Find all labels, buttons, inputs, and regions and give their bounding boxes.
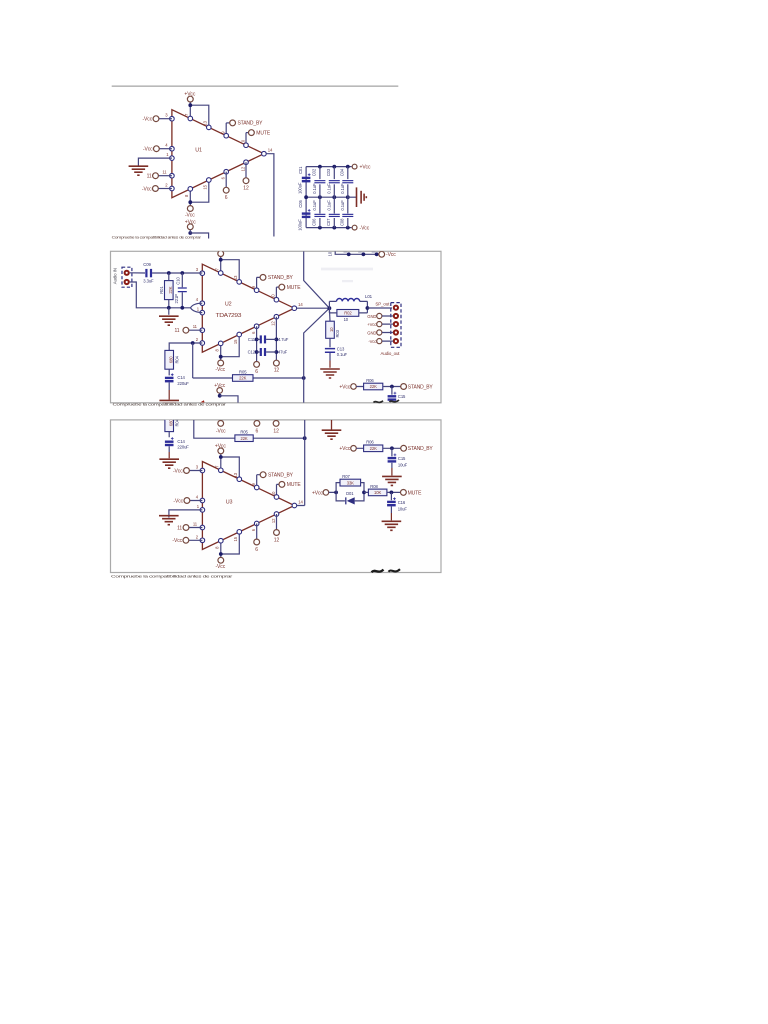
svg-text:10: 10 bbox=[344, 317, 349, 322]
svg-text:0.1uF: 0.1uF bbox=[312, 183, 317, 194]
svg-text:22K: 22K bbox=[370, 446, 377, 451]
svg-text:R06: R06 bbox=[366, 378, 374, 383]
svg-text:221P: 221P bbox=[174, 294, 179, 304]
svg-text:0.1uF: 0.1uF bbox=[312, 200, 317, 211]
svg-text:220uF: 220uF bbox=[177, 381, 189, 386]
svg-text:R03: R03 bbox=[335, 329, 340, 337]
svg-text:6: 6 bbox=[255, 369, 258, 375]
svg-text:C14: C14 bbox=[177, 375, 185, 380]
svg-text:-Vcc: -Vcc bbox=[216, 429, 226, 435]
svg-text:220uF: 220uF bbox=[177, 445, 189, 450]
svg-text:12: 12 bbox=[274, 367, 280, 373]
svg-text:C02: C02 bbox=[312, 168, 317, 176]
svg-text:0.1uF: 0.1uF bbox=[340, 200, 345, 211]
svg-text:C13: C13 bbox=[337, 346, 345, 351]
svg-text:Compruebe la compatibilidad an: Compruebe la compatibilidad antes de com… bbox=[111, 575, 234, 579]
svg-text:SP_out: SP_out bbox=[375, 302, 390, 307]
svg-text:C08: C08 bbox=[340, 218, 345, 226]
svg-text:100uF: 100uF bbox=[297, 219, 302, 231]
svg-text:R05: R05 bbox=[240, 430, 248, 435]
svg-text:R04: R04 bbox=[175, 355, 180, 363]
svg-text:10uF: 10uF bbox=[398, 463, 408, 468]
svg-text:+Vcc: +Vcc bbox=[339, 384, 350, 390]
svg-text:TDA7293: TDA7293 bbox=[216, 313, 242, 319]
svg-text:-Vcc: -Vcc bbox=[386, 252, 396, 258]
svg-text:+Vcc: +Vcc bbox=[339, 446, 350, 452]
svg-text:STAND_BY: STAND_BY bbox=[408, 446, 434, 452]
svg-text:12: 12 bbox=[273, 429, 279, 435]
svg-text:C01: C01 bbox=[298, 166, 303, 174]
svg-text:D01: D01 bbox=[346, 491, 354, 496]
svg-text:R06: R06 bbox=[366, 440, 374, 445]
svg-text:C10: C10 bbox=[176, 277, 181, 285]
svg-text:47uF: 47uF bbox=[278, 349, 288, 354]
svg-text:4.7uF: 4.7uF bbox=[278, 337, 289, 342]
svg-text:C04: C04 bbox=[340, 168, 345, 176]
svg-text:R07: R07 bbox=[342, 474, 350, 479]
svg-text:C09: C09 bbox=[143, 262, 151, 267]
svg-text:33K: 33K bbox=[347, 480, 354, 485]
svg-text:+Vcc: +Vcc bbox=[312, 490, 323, 496]
svg-text:6: 6 bbox=[256, 429, 259, 435]
svg-text:+Vcc: +Vcc bbox=[360, 164, 371, 170]
svg-text:0.1uF: 0.1uF bbox=[340, 183, 345, 194]
svg-text:10: 10 bbox=[327, 251, 332, 256]
svg-text:R01: R01 bbox=[159, 286, 164, 294]
svg-text:C15: C15 bbox=[398, 394, 406, 399]
svg-text:22K: 22K bbox=[168, 286, 173, 293]
svg-text:U3: U3 bbox=[226, 499, 233, 505]
svg-text:Audio_out: Audio_out bbox=[381, 351, 401, 356]
svg-text:11: 11 bbox=[175, 328, 180, 334]
svg-text:R08: R08 bbox=[370, 484, 378, 489]
svg-text:3.3uF: 3.3uF bbox=[143, 279, 154, 284]
svg-text:C12: C12 bbox=[248, 349, 256, 354]
svg-text:U1: U1 bbox=[195, 148, 202, 154]
svg-text:C11: C11 bbox=[248, 337, 256, 342]
svg-text:GND: GND bbox=[367, 330, 376, 335]
svg-text:C15: C15 bbox=[398, 456, 406, 461]
svg-text:C05: C05 bbox=[298, 200, 303, 208]
svg-text:22K: 22K bbox=[240, 436, 247, 441]
svg-text:0.1uF: 0.1uF bbox=[326, 200, 331, 211]
svg-text:0.1uF: 0.1uF bbox=[337, 352, 348, 357]
svg-text:-Vcc: -Vcc bbox=[360, 225, 370, 231]
svg-text:10K: 10K bbox=[374, 490, 381, 495]
svg-text:-Vcc: -Vcc bbox=[368, 339, 376, 344]
svg-text:22K: 22K bbox=[239, 376, 246, 381]
svg-text:Audio IN: Audio IN bbox=[113, 268, 118, 284]
svg-text:MUTE: MUTE bbox=[408, 490, 423, 496]
svg-text:C03: C03 bbox=[326, 168, 331, 176]
svg-text:Compruebe la compatibilidad an: Compruebe la compatibilidad antes de com… bbox=[112, 236, 202, 240]
svg-text:U2: U2 bbox=[225, 302, 232, 308]
svg-text:10uF: 10uF bbox=[398, 507, 408, 512]
svg-text:C06: C06 bbox=[312, 218, 317, 226]
svg-text:R02: R02 bbox=[344, 311, 352, 316]
svg-text:100uF: 100uF bbox=[297, 182, 302, 194]
svg-text:22K: 22K bbox=[370, 384, 377, 389]
svg-text:Compruebe la compatibilidad an: Compruebe la compatibilidad antes de com… bbox=[113, 403, 228, 407]
svg-text:STAND_BY: STAND_BY bbox=[408, 384, 434, 390]
svg-text:GND: GND bbox=[367, 314, 376, 319]
svg-text:C07: C07 bbox=[326, 218, 331, 226]
svg-text:680: 680 bbox=[168, 356, 173, 363]
svg-text:10: 10 bbox=[329, 327, 334, 332]
svg-text:+Vcc: +Vcc bbox=[367, 322, 376, 327]
svg-text:C14: C14 bbox=[177, 439, 185, 444]
svg-text:0.1uF: 0.1uF bbox=[326, 183, 331, 194]
svg-text:C16: C16 bbox=[398, 500, 406, 505]
svg-text:L01: L01 bbox=[365, 294, 373, 299]
svg-text:R05: R05 bbox=[239, 369, 247, 374]
